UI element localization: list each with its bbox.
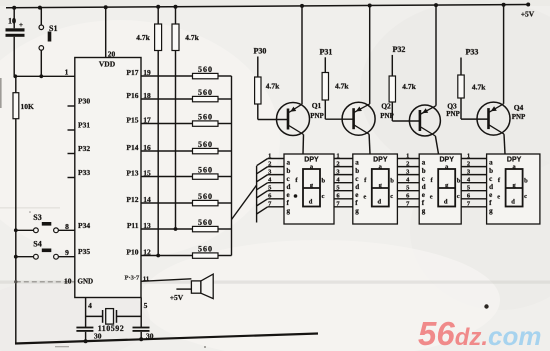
svg-text:560: 560 — [198, 244, 213, 253]
svg-text:b: b — [322, 178, 326, 185]
svg-text:P33: P33 — [78, 168, 90, 177]
wire stub P33 — [68, 177, 75, 179]
resistor 4.7k base Q1 — [255, 57, 288, 120]
svg-text:560: 560 — [198, 112, 213, 121]
wire VDD pin 20 — [106, 7, 116, 58]
transistor Q4 PNP — [477, 102, 526, 135]
wire emitter Q1 to +5V — [301, 6, 303, 104]
wire emitter Q2 to +5V — [369, 6, 371, 104]
scan specks — [0, 78, 489, 348]
svg-text:P17: P17 — [126, 68, 138, 77]
resistor 560 on P11 — [141, 218, 232, 232]
svg-text:d: d — [377, 199, 381, 206]
svg-text:b: b — [390, 178, 394, 185]
wire XTAL pin 5 — [141, 298, 147, 328]
wire fan segment 5 — [257, 185, 284, 198]
svg-text:20: 20 — [108, 50, 116, 59]
svg-text:d: d — [444, 199, 448, 206]
svg-text:b: b — [489, 167, 493, 175]
wire ladder between DPY2 and DPY3 — [397, 152, 419, 207]
svg-text:e: e — [430, 194, 433, 201]
svg-text:DPY: DPY — [304, 157, 319, 164]
wire GND (pin 10) faint — [14, 280, 75, 283]
svg-text:P12: P12 — [126, 195, 138, 204]
svg-text:5: 5 — [144, 301, 148, 310]
resistor 4.7k base Q3 — [389, 55, 420, 121]
switch S3 — [16, 213, 75, 233]
svg-text:P31: P31 — [320, 47, 333, 56]
wire stub P31 — [68, 129, 75, 131]
svg-text:2: 2 — [268, 160, 271, 167]
resistor 560 on P13 — [141, 165, 232, 179]
pin label P14 pin 16 — [126, 143, 151, 152]
svg-text:2: 2 — [336, 160, 339, 167]
svg-text:g: g — [287, 207, 291, 215]
svg-text:GND: GND — [78, 278, 94, 286]
wire collector Q1 to display — [302, 135, 305, 155]
wire segment bus vertical — [231, 76, 233, 256]
svg-text:2: 2 — [467, 160, 470, 167]
svg-text:P15: P15 — [126, 116, 138, 125]
svg-text:S3: S3 — [33, 213, 41, 222]
svg-text:+5V: +5V — [521, 10, 535, 19]
svg-text:S4: S4 — [33, 239, 41, 248]
wire fan segment 7 — [257, 201, 284, 214]
svg-text:P14: P14 — [126, 143, 138, 152]
svg-text:560: 560 — [198, 218, 213, 227]
svg-text:PNP: PNP — [512, 113, 526, 121]
speaker LS1 — [191, 274, 213, 299]
svg-text:c: c — [390, 193, 393, 200]
wire P37 to speaker — [141, 279, 191, 282]
wire RST node (pin 1) — [13, 68, 74, 79]
svg-text:560: 560 — [198, 88, 213, 97]
wire stub P30 — [68, 105, 75, 107]
svg-text:b: b — [355, 167, 359, 175]
resistor 560 on P10 — [141, 244, 232, 258]
display DPY4 — [487, 154, 540, 224]
resistor 560 on P16 — [141, 88, 232, 102]
capacitor C1 10uF — [6, 8, 25, 77]
wire emitter Q4 to +5V — [503, 5, 505, 104]
svg-text:1: 1 — [268, 152, 271, 159]
svg-text:c: c — [287, 175, 290, 183]
wire collector Q4 to display — [504, 134, 505, 154]
pin label P37 pin 11 — [125, 275, 150, 283]
wire left ground vertical — [14, 119, 18, 344]
svg-text:Q2: Q2 — [381, 102, 391, 111]
svg-text:4.7k: 4.7k — [472, 83, 486, 92]
wire fan segment 3 — [257, 168, 284, 181]
svg-text:e: e — [489, 191, 492, 199]
svg-text:b: b — [287, 167, 291, 175]
svg-text:d: d — [287, 183, 291, 191]
svg-text:560: 560 — [198, 192, 213, 201]
svg-text:b: b — [524, 178, 528, 185]
svg-text:P35: P35 — [78, 247, 90, 256]
scan artifact stripe — [0, 281, 550, 284]
svg-text:b: b — [457, 178, 461, 185]
resistor 560 on P12 — [141, 192, 232, 206]
svg-text:b: b — [422, 167, 426, 175]
svg-text:1: 1 — [336, 152, 339, 159]
resistor 10K — [13, 76, 34, 118]
switch S1 — [39, 8, 57, 77]
svg-text:560: 560 — [198, 165, 213, 174]
svg-text:P32: P32 — [393, 45, 406, 54]
svg-text:a: a — [287, 159, 291, 167]
IC U1 microcontroller — [64, 58, 141, 298]
svg-text:P30: P30 — [78, 97, 90, 106]
svg-text:PNP: PNP — [310, 112, 324, 120]
svg-text:560: 560 — [198, 140, 213, 149]
svg-text:g: g — [489, 207, 493, 215]
pin label P12 pin 14 — [126, 195, 151, 204]
svg-text:1: 1 — [406, 152, 409, 159]
wire ladder between DPY1 and DPY2 — [334, 152, 353, 207]
svg-text:10: 10 — [64, 277, 72, 286]
svg-text:30: 30 — [94, 332, 102, 341]
wire fan segment 1 — [257, 152, 284, 165]
svg-text:d: d — [422, 183, 426, 191]
svg-text:10: 10 — [8, 17, 16, 26]
display DPY2 — [353, 154, 398, 224]
wire collector Q2 to display — [368, 134, 371, 154]
wire emitter Q3 to +5V — [435, 5, 437, 106]
resistor R1 4.7k pull-up — [136, 7, 161, 258]
svg-text:d: d — [309, 199, 313, 206]
pin label P15 pin 17 — [126, 116, 151, 125]
svg-text:P30: P30 — [254, 47, 267, 56]
svg-text:e: e — [355, 191, 358, 199]
svg-text:PNP: PNP — [446, 110, 460, 118]
svg-text:560: 560 — [198, 65, 213, 74]
svg-text:P32: P32 — [78, 144, 90, 153]
svg-text:1: 1 — [65, 68, 69, 77]
pin label P16 pin 18 — [126, 91, 151, 100]
capacitor 30pF left — [76, 327, 101, 342]
svg-text:4.7k: 4.7k — [185, 33, 199, 42]
pin label P13 pin 15 — [126, 169, 151, 178]
svg-text:P16: P16 — [126, 91, 138, 100]
transistor Q3 PNP — [409, 102, 460, 136]
svg-text:Q1: Q1 — [312, 101, 322, 110]
svg-text:a: a — [489, 159, 493, 167]
svg-text:e: e — [422, 191, 425, 199]
svg-text:4.7k: 4.7k — [335, 81, 349, 90]
svg-text:Q4: Q4 — [514, 103, 524, 112]
wire fan segment 4 — [257, 177, 284, 190]
svg-text:c: c — [355, 175, 358, 183]
svg-text:e: e — [287, 191, 290, 199]
svg-text:4: 4 — [88, 301, 92, 310]
svg-text:c: c — [322, 193, 325, 200]
wire XTAL pin 4 — [86, 298, 93, 328]
node display segment fan bus — [256, 166, 258, 223]
resistor 560 on P14 — [141, 140, 232, 154]
wire fan segment 2 — [257, 160, 284, 173]
svg-text:e: e — [363, 194, 366, 201]
svg-text:+: + — [19, 21, 23, 29]
resistor 4.7k base Q4 — [458, 58, 489, 120]
svg-text:1: 1 — [467, 152, 470, 159]
wire collector Q3 to display — [435, 136, 438, 154]
svg-text:P13: P13 — [126, 169, 138, 178]
svg-text:DPY: DPY — [373, 157, 388, 164]
transistor Q2 PNP — [342, 102, 394, 136]
wire fan segment 6 — [257, 193, 284, 206]
svg-text:2: 2 — [406, 160, 409, 167]
resistor 4.7k base Q2 — [322, 57, 354, 119]
svg-text:P·3·7: P·3·7 — [125, 275, 141, 282]
svg-text:P34: P34 — [78, 221, 90, 230]
svg-text:P11: P11 — [127, 221, 139, 230]
svg-text:+5V: +5V — [170, 293, 184, 302]
pin label P11 pin 13 — [127, 221, 151, 230]
svg-text:g: g — [355, 207, 359, 215]
pin label P17 pin 19 — [126, 68, 151, 77]
svg-text:8: 8 — [65, 222, 69, 231]
svg-text:110592: 110592 — [98, 324, 125, 333]
pin label P10 pin 12 — [126, 248, 151, 257]
svg-text:d: d — [355, 183, 359, 191]
switch S4 — [16, 239, 75, 259]
wire +5V to speaker — [170, 289, 192, 302]
svg-text:DPY: DPY — [507, 157, 522, 164]
svg-text:c: c — [422, 175, 425, 183]
resistor 560 on P15 — [141, 112, 232, 126]
transistor Q1 PNP — [277, 101, 325, 136]
svg-text:d: d — [511, 199, 515, 206]
svg-text:DPY: DPY — [439, 157, 454, 164]
svg-text:P31: P31 — [78, 121, 90, 130]
svg-text:VDD: VDD — [99, 60, 116, 69]
capacitor 30pF right — [133, 327, 154, 341]
svg-text:d: d — [489, 183, 493, 191]
svg-text:a: a — [355, 159, 359, 167]
svg-text:P33: P33 — [466, 48, 479, 57]
wire ladder between DPY3 and DPY4 — [461, 152, 486, 207]
svg-text:c: c — [489, 175, 492, 183]
svg-text:P10: P10 — [126, 248, 138, 257]
wire top +5V rail — [6, 3, 530, 10]
display DPY1 — [284, 154, 334, 224]
svg-text:a: a — [422, 159, 426, 167]
wire stub P32 — [68, 153, 75, 155]
svg-text:4.7k: 4.7k — [266, 82, 280, 91]
resistor 560 on P17 — [141, 65, 232, 79]
svg-text:g: g — [422, 207, 426, 215]
svg-text:c: c — [457, 193, 460, 200]
svg-text:4.7k: 4.7k — [402, 82, 416, 91]
svg-text:4.7k: 4.7k — [136, 33, 150, 42]
svg-text:c: c — [524, 193, 527, 200]
wire ground rail — [15, 334, 318, 344]
wire bus diagonal to displays — [232, 185, 257, 219]
svg-text:10K: 10K — [21, 102, 35, 111]
svg-text:9: 9 — [65, 248, 69, 257]
svg-text:S1: S1 — [49, 24, 57, 33]
resistor R2 4.7k pull-up — [172, 7, 200, 231]
svg-text:e: e — [497, 194, 500, 201]
display DPY3 — [419, 154, 461, 224]
crystal Y1 11.0592MHz — [86, 309, 142, 333]
